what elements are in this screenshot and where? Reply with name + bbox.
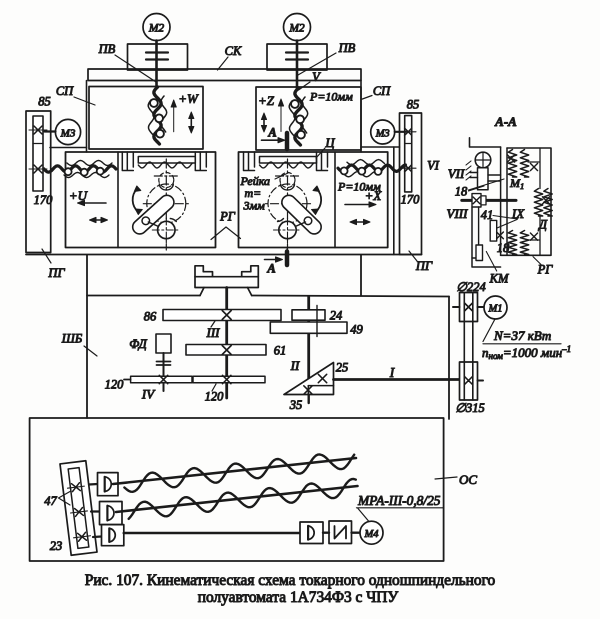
gear 24 on shaft II bbox=[292, 310, 325, 320]
svg-text:МРА-III-0,8/25: МРА-III-0,8/25 bbox=[357, 493, 441, 508]
shaft to M4 bbox=[352, 532, 361, 534]
worm shaft 1 bbox=[113, 455, 356, 492]
svg-text:V: V bbox=[312, 70, 321, 84]
gear rim upper (zigzag) bbox=[507, 150, 537, 178]
svg-text:VI: VI bbox=[427, 159, 440, 173]
svg-text:А: А bbox=[267, 126, 276, 140]
belt drive: pulley D224 bbox=[460, 293, 478, 322]
svg-text:120: 120 bbox=[205, 390, 225, 404]
shaft M3 left to gears bbox=[45, 130, 56, 132]
gear rim middle right (zigzag) bbox=[534, 189, 552, 217]
shaft IV stub bbox=[124, 379, 131, 381]
M3 motor left housing bbox=[50, 147, 87, 149]
double arrow Z bbox=[261, 113, 266, 132]
label ПГ right with leader bbox=[409, 251, 433, 273]
svg-text:∅224: ∅224 bbox=[456, 280, 486, 294]
feed drive box ОС bbox=[30, 418, 444, 561]
beam СК (cross-rail) bbox=[88, 69, 361, 81]
svg-text:Р=10мм: Р=10мм bbox=[309, 90, 353, 104]
section plane bar A lower bbox=[285, 252, 290, 266]
M1 shaft column in section bbox=[501, 147, 507, 255]
svg-text:N=37 кВт: N=37 кВт bbox=[493, 328, 551, 343]
M3 motor right housing bbox=[361, 146, 400, 148]
svg-text:РГ: РГ bbox=[219, 210, 236, 224]
svg-text:РГ: РГ bbox=[537, 263, 554, 277]
shaft from M2 right bbox=[296, 41, 299, 89]
arrow left U bbox=[78, 200, 107, 205]
column ПГ left (frame post) bbox=[26, 111, 51, 253]
lower-left column in section bbox=[472, 207, 501, 267]
turret mechanism left bbox=[122, 152, 206, 250]
svg-text:полуавтомата 1А734Ф3 с ЧПУ: полуавтомата 1А734Ф3 с ЧПУ bbox=[198, 589, 399, 606]
turret housing right (revolver head box) bbox=[239, 152, 388, 248]
spec N=37 kWt bbox=[483, 328, 561, 344]
svg-text:85: 85 bbox=[38, 95, 51, 109]
divider wall in right turret box bbox=[334, 152, 336, 248]
label 41 with leader bbox=[481, 208, 518, 222]
label Ц with leader bbox=[316, 136, 335, 158]
label РГ section with leader bbox=[533, 257, 553, 277]
rack label Рейка m=3мм bbox=[240, 173, 289, 213]
machine frame bottom line bbox=[26, 254, 422, 256]
svg-text:+W: +W bbox=[178, 91, 199, 106]
arrow right X bbox=[345, 202, 376, 207]
svg-text:170: 170 bbox=[34, 193, 54, 207]
svg-text:ПГ: ПГ bbox=[415, 259, 433, 273]
ballscrew U horizontal bbox=[44, 160, 116, 177]
label V with leader bbox=[299, 70, 322, 90]
svg-text:III: III bbox=[206, 325, 221, 340]
gear 49 on shaft II bbox=[270, 322, 347, 333]
label IX with leader bbox=[490, 206, 525, 231]
svg-text:18: 18 bbox=[497, 241, 510, 255]
svg-text:170: 170 bbox=[401, 193, 421, 207]
label ПВ left with leader bbox=[98, 42, 156, 82]
coupling 4 bbox=[300, 522, 323, 544]
shaft from M2 left into clutch bbox=[155, 41, 158, 89]
belt lines bbox=[464, 293, 473, 401]
svg-text:I: I bbox=[389, 365, 396, 380]
tilted feed gearbox bbox=[60, 461, 97, 555]
arrow up W bbox=[171, 100, 176, 132]
shaft M3 right to gears bbox=[395, 131, 406, 133]
svg-text:Ц: Ц bbox=[324, 136, 335, 150]
gear strip right (85/170 gearbox) bbox=[401, 116, 417, 192]
coupling 1 (top worm clutch) bbox=[89, 473, 118, 496]
label СП right with leader bbox=[361, 84, 391, 100]
frame wall left of panels bbox=[86, 81, 88, 153]
svg-text:120: 120 bbox=[105, 378, 125, 392]
svg-text:СП: СП bbox=[373, 84, 391, 98]
M1 motor bbox=[484, 296, 507, 319]
mesh line through 24/49 bbox=[316, 306, 318, 337]
leader from M1 to specs bbox=[483, 319, 495, 342]
bevel gear pair 25/35 bbox=[284, 363, 334, 395]
label 47 with pointer bbox=[44, 492, 70, 509]
shaft II lower stub bbox=[308, 395, 310, 404]
shaft II vertical bbox=[307, 297, 310, 386]
svg-text:35: 35 bbox=[289, 398, 303, 412]
svg-text:+Z: +Z bbox=[258, 93, 275, 108]
svg-text:М4: М4 bbox=[364, 529, 380, 540]
photo sensor ФД bbox=[156, 334, 171, 377]
turret axis stub to frame bbox=[286, 248, 288, 253]
A-A section outline bbox=[470, 138, 552, 256]
gear block on VIII bbox=[472, 194, 486, 207]
svg-text:25: 25 bbox=[336, 361, 349, 375]
gear 61 on shaft III bbox=[186, 345, 266, 356]
svg-text:ШБ: ШБ bbox=[61, 332, 83, 346]
svg-text:КМ: КМ bbox=[489, 272, 509, 286]
M4 motor bbox=[360, 521, 383, 544]
clutch box ПВ right bbox=[267, 44, 327, 70]
svg-text:47: 47 bbox=[44, 494, 57, 508]
svg-text:23: 23 bbox=[50, 539, 63, 553]
svg-text:М2: М2 bbox=[288, 23, 305, 35]
M3 motor right bbox=[371, 120, 395, 144]
svg-text:ПГ: ПГ bbox=[47, 266, 65, 280]
frame wall right of panels bbox=[360, 81, 362, 153]
coupling 5 (И clutch) bbox=[323, 521, 352, 544]
coupling 2 (middle worm clutch) bbox=[91, 502, 122, 525]
label ОС with leader bbox=[435, 472, 477, 487]
divider wall in left turret box bbox=[117, 152, 119, 248]
svg-text:М2: М2 bbox=[148, 23, 165, 35]
label 120 middle with tick bbox=[205, 384, 225, 404]
M2 motor left (У2 axis drive) bbox=[143, 14, 170, 41]
label РГ middle with pointers bbox=[211, 210, 241, 240]
connector lines of rims bbox=[528, 148, 540, 255]
gear on shaft IX bbox=[490, 220, 503, 241]
panel СП right (Z slide housing) bbox=[256, 87, 361, 150]
svg-text:24: 24 bbox=[330, 309, 343, 323]
ballscrew X horizontal bbox=[338, 160, 406, 177]
turret housing left (revolver head box) bbox=[66, 152, 216, 248]
svg-text:СК: СК bbox=[225, 44, 242, 58]
label ШБ with leader bbox=[61, 332, 97, 357]
label III with tick bbox=[206, 321, 221, 340]
bottom feed shaft bbox=[124, 532, 300, 535]
gear 86 on shaft III bbox=[163, 310, 281, 321]
section arrow A upper bbox=[262, 126, 286, 143]
gear strip left (85/170 gearbox) bbox=[29, 116, 47, 191]
shaft stubs at pulleys bbox=[453, 307, 485, 381]
panel СП left (W slide housing) bbox=[89, 87, 203, 150]
svg-text:ПВ: ПВ bbox=[338, 41, 356, 55]
turret mechanism right bbox=[244, 152, 328, 250]
svg-text:А: А bbox=[266, 262, 275, 276]
arrow up Z bbox=[278, 99, 283, 132]
clutch box ПВ left bbox=[128, 44, 188, 70]
label MPA with underline and leader bbox=[357, 493, 444, 521]
svg-text:А-А: А-А bbox=[494, 114, 517, 129]
handwheel in section bbox=[475, 152, 491, 190]
label ПГ left with leader bbox=[42, 249, 65, 280]
label СК with leader bbox=[218, 44, 243, 70]
label КМ with leader bbox=[486, 252, 509, 286]
svg-text:IV: IV bbox=[141, 387, 156, 402]
svg-text:М3: М3 bbox=[375, 129, 390, 140]
svg-text:М3: М3 bbox=[60, 128, 76, 140]
svg-text:ПВ: ПВ bbox=[98, 42, 116, 56]
ballscrew Z vertical bbox=[289, 88, 308, 145]
column ПГ right (frame post) bbox=[400, 113, 422, 255]
label СП left with leader bbox=[56, 84, 95, 105]
shaft of ФД below gear bbox=[163, 383, 165, 391]
gear 120 left on shaft IV bbox=[131, 375, 192, 383]
section arrow A lower bbox=[265, 257, 283, 276]
svg-text:18: 18 bbox=[455, 185, 468, 199]
double arrow W bbox=[189, 112, 194, 133]
M3 motor left bbox=[55, 119, 80, 144]
svg-text:VII: VII bbox=[448, 166, 465, 181]
svg-text:М1: М1 bbox=[509, 176, 524, 191]
label 18 upper with leaders bbox=[455, 179, 504, 199]
gear rim lower (zigzag) bbox=[508, 231, 537, 255]
svg-text:Рис. 107. Кинематическая схема: Рис. 107. Кинематическая схема токарного… bbox=[85, 572, 496, 589]
svg-text:85: 85 bbox=[407, 98, 420, 112]
svg-text:+X: +X bbox=[365, 188, 383, 203]
svg-text:∅315: ∅315 bbox=[455, 401, 485, 415]
svg-text:СП: СП bbox=[56, 84, 74, 98]
svg-text:М1: М1 bbox=[488, 304, 503, 315]
spindle chuck fixture bbox=[195, 266, 258, 296]
pulley D315 bbox=[460, 362, 478, 400]
shaft VII with hatching bbox=[466, 161, 501, 181]
svg-text:61: 61 bbox=[274, 344, 287, 358]
gear 120 right on shaft III bbox=[193, 375, 265, 383]
worm shaft 2 bbox=[116, 479, 358, 519]
double arrow U bbox=[90, 217, 108, 222]
svg-text:ФД: ФД bbox=[129, 337, 147, 351]
M2 motor right (Z axis drive) bbox=[284, 14, 311, 41]
spindle shaft III vertical bbox=[225, 288, 228, 399]
svg-text:nном=1000 мин–1: nном=1000 мин–1 bbox=[482, 344, 571, 361]
section plane bar A upper bbox=[285, 133, 290, 149]
svg-text:II: II bbox=[290, 358, 300, 373]
svg-text:VIII: VIII bbox=[447, 206, 469, 221]
svg-text:IX: IX bbox=[511, 206, 525, 221]
svg-text:49: 49 bbox=[350, 323, 363, 337]
ballscrew W vertical bbox=[148, 87, 167, 144]
coupling 3 (bottom shaft clutch) bbox=[93, 525, 124, 546]
double arrow X bbox=[350, 219, 370, 224]
svg-text:Д: Д bbox=[538, 218, 548, 232]
svg-text:+U: +U bbox=[69, 188, 89, 203]
housing wall right of turret bbox=[393, 147, 395, 255]
shaft I horizontal bbox=[334, 378, 460, 381]
shaft VIII thick bbox=[462, 199, 516, 202]
svg-text:ОС: ОС bbox=[459, 472, 477, 487]
svg-text:3мм: 3мм bbox=[243, 199, 266, 213]
spindle block ШБ box bbox=[87, 255, 449, 419]
label ПВ right with leader bbox=[298, 41, 356, 75]
svg-text:86: 86 bbox=[144, 310, 157, 324]
